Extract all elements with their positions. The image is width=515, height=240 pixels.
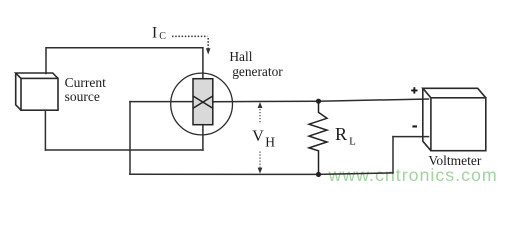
svg-text:Voltmeter: Voltmeter	[428, 153, 481, 168]
svg-text:generator: generator	[232, 64, 283, 79]
wire: negative wire into voltmeter	[393, 136, 429, 138]
current source box	[16, 73, 58, 110]
svg-text:V: V	[252, 128, 264, 145]
svg-text:R: R	[335, 124, 347, 144]
wire: current source bottom lead	[44, 110, 46, 150]
wire: positive output wire hall to voltmeter	[213, 99, 429, 102]
junction dot bottom of resistor	[316, 172, 321, 177]
wire: hall generator bottom lead	[202, 125, 204, 150]
svg-text:I: I	[152, 24, 157, 41]
svg-text:C: C	[159, 31, 166, 42]
label: minus terminal	[412, 125, 417, 127]
wire: hall output left lead	[130, 101, 193, 103]
junction dot top of resistor	[316, 99, 321, 104]
V_H dotted measure line with arrows	[259, 106, 261, 169]
voltmeter box	[423, 88, 486, 150]
wire: right output rise	[392, 137, 394, 173]
hall element X contacts	[193, 96, 213, 108]
wire: bottom output wire	[130, 173, 393, 175]
wire: left output drop	[129, 102, 131, 175]
svg-text:www.cntronics.com: www.cntronics.com	[328, 165, 498, 185]
svg-text:source: source	[65, 89, 100, 104]
label: plus terminal	[411, 87, 417, 93]
dotted arrow for control current	[172, 36, 208, 48]
wire: bottom control wire to hall generator bottom	[45, 149, 203, 151]
svg-text:Hall: Hall	[229, 49, 252, 64]
svg-text:L: L	[349, 136, 356, 148]
hall generator circle	[171, 73, 233, 135]
wire: top control wire from current source to hall generator	[46, 48, 203, 79]
svg-text:Current: Current	[65, 75, 106, 90]
resistor R_L zigzag	[309, 101, 327, 174]
hall element plate	[193, 79, 213, 125]
svg-text:H: H	[265, 134, 275, 149]
